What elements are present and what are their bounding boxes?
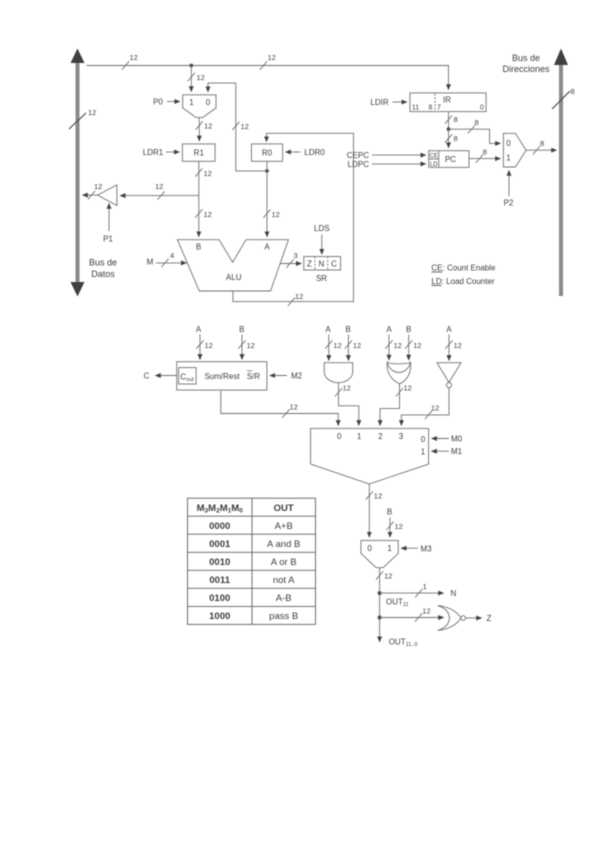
wire M3 to mux select [401, 547, 418, 549]
wire LDR1 to R1 [166, 151, 179, 153]
slash 12 on top wire right [260, 53, 276, 70]
svg-text:LD: LD [430, 162, 438, 168]
bus Bus de Datos [71, 49, 85, 297]
node junction to NOR [378, 616, 382, 620]
wire junction to mux P2 input 0 [449, 129, 501, 143]
svg-text:12: 12 [204, 210, 212, 219]
svg-text:12: 12 [353, 341, 361, 350]
svg-text:M3M2M1M0: M3M2M1M0 [197, 503, 244, 515]
svg-text:SR: SR [316, 274, 327, 283]
wire LDIR to IR [393, 101, 407, 103]
svg-text:CEPC: CEPC [347, 151, 369, 160]
wire ALU output feedback loop to R0 input [233, 133, 354, 301]
slash 8 on wire to mux input 0 [468, 118, 479, 133]
wire B to mux M3 input 1 [389, 518, 391, 538]
svg-text:OUT11..0: OUT11..0 [389, 638, 418, 649]
svg-text:C: C [331, 260, 337, 269]
wire NOT output to mux input 3 [401, 388, 449, 426]
svg-text:11: 11 [412, 104, 419, 111]
svg-text:12: 12 [155, 182, 163, 191]
svg-text:8: 8 [454, 134, 458, 143]
svg-text:12: 12 [395, 522, 403, 531]
slash 8 on IR output [445, 115, 458, 124]
svg-text:0001: 0001 [209, 539, 231, 550]
wire mux output to mux M3 input 0 [368, 484, 370, 537]
svg-text:3: 3 [294, 251, 298, 260]
svg-text:1000: 1000 [209, 611, 230, 622]
svg-text:0: 0 [206, 98, 211, 107]
slash 12 on mux P0 output [196, 121, 213, 130]
svg-text:12: 12 [454, 341, 462, 350]
svg-text:A: A [264, 243, 270, 252]
wire M0 to mux select [432, 438, 449, 440]
svg-text:PC: PC [445, 155, 456, 164]
register SR [304, 257, 341, 271]
wire B to Sum/Rest [241, 335, 243, 360]
slash 12 on ALU B input [195, 209, 212, 219]
wire mux P2 output to address bus [526, 149, 556, 151]
svg-text:IR: IR [443, 96, 451, 105]
register R1 [182, 144, 215, 161]
svg-text:12: 12 [88, 108, 96, 117]
svg-text:1: 1 [189, 98, 194, 107]
svg-text:S/R: S/R [247, 372, 261, 381]
table of ALU operations [188, 498, 316, 624]
svg-text:12: 12 [422, 607, 430, 616]
svg-text:C: C [144, 372, 150, 381]
svg-text:B: B [387, 508, 392, 517]
svg-text:12: 12 [431, 404, 439, 413]
wire A to NOT gate [448, 335, 450, 361]
wire junction to mux P0 input 1 [190, 66, 192, 92]
wire P0 to mux select [167, 101, 180, 103]
svg-text:12: 12 [272, 210, 280, 219]
slash 12 on mux output [366, 491, 382, 500]
svg-text:pass B: pass B [269, 611, 298, 622]
svg-text:1: 1 [506, 154, 511, 163]
wire buffer output to data bus [83, 194, 98, 196]
svg-text:LDR0: LDR0 [304, 148, 325, 157]
svg-text:B: B [345, 325, 350, 334]
wire ALU flags to SR [280, 263, 301, 265]
svg-text:A: A [325, 325, 331, 334]
slash 12 on R1 output [195, 168, 212, 178]
svg-text:Direcciones: Direcciones [502, 64, 550, 74]
register IR [410, 93, 486, 112]
svg-text:12: 12 [374, 492, 382, 501]
svg-text:CE: Count Enable: CE: Count Enable [431, 264, 496, 273]
wire LDS to SR [321, 235, 323, 255]
svg-text:A: A [446, 325, 452, 334]
svg-text:7: 7 [437, 104, 441, 111]
svg-text:12: 12 [204, 169, 212, 178]
wire Sum/Rest output to mux input 0 [221, 390, 338, 425]
svg-text:8: 8 [429, 104, 433, 111]
svg-text:M0: M0 [451, 435, 463, 444]
svg-text:A: A [386, 325, 392, 334]
slash 8 on mux P2 output [533, 139, 544, 154]
svg-text:M1: M1 [451, 447, 463, 456]
wire OR output to mux input 2 [380, 384, 399, 426]
slash 8 on PC output [476, 148, 487, 163]
svg-text:M: M [147, 258, 154, 267]
svg-text:8: 8 [454, 115, 458, 124]
slash 12 on ALU A input [263, 209, 279, 219]
svg-text:1: 1 [387, 544, 392, 553]
svg-text:A+B: A+B [275, 521, 293, 532]
svg-text:12: 12 [205, 341, 213, 350]
adder Sum/Rest [177, 362, 267, 390]
svg-text:12: 12 [130, 53, 138, 62]
svg-text:R0: R0 [262, 149, 273, 158]
wire Cout to C [156, 375, 177, 377]
gate AND [324, 363, 353, 383]
gate OR [387, 362, 411, 384]
svg-text:0: 0 [421, 435, 426, 444]
svg-text:Cout: Cout [180, 373, 194, 384]
svg-text:8: 8 [483, 148, 487, 157]
wire IR output to junction [448, 112, 450, 130]
wire M2 to Sum/Rest [270, 375, 287, 377]
tri-state buffer P1 [98, 185, 117, 206]
wire PC output to mux P2 input 1 [469, 158, 500, 160]
svg-text:R1: R1 [194, 149, 205, 158]
svg-text:1: 1 [421, 448, 426, 457]
svg-text:0: 0 [506, 139, 511, 148]
slash 12 on buffer output [88, 182, 102, 199]
wire AND output to mux input 1 [339, 383, 359, 426]
mux M3 [361, 540, 398, 567]
svg-text:8: 8 [540, 139, 544, 148]
svg-text:OUT: OUT [274, 503, 294, 514]
svg-text:P1: P1 [103, 235, 113, 244]
gate NOR [438, 606, 466, 631]
wire junction to NOR gate [380, 617, 444, 619]
slash 12 on feedback wire [232, 122, 249, 131]
svg-text:0: 0 [367, 544, 372, 553]
svg-text:N: N [319, 260, 325, 269]
wire A to Sum/Rest [199, 335, 201, 360]
svg-text:A and B: A and B [267, 539, 300, 550]
gate NOT [437, 363, 461, 388]
svg-text:Bus de: Bus de [89, 258, 117, 268]
wire R1 output to tri-state buffer [120, 195, 199, 197]
slash 12 on OR output [396, 384, 412, 397]
svg-text:0: 0 [337, 432, 342, 441]
wire OUT result down [379, 568, 381, 642]
svg-text:Datos: Datos [91, 269, 115, 279]
svg-text:M3: M3 [421, 545, 433, 554]
slash 12 on AND output [335, 384, 351, 397]
wire NOR output to Z [466, 617, 482, 619]
slash 12 on B wire [386, 522, 402, 531]
wire B to AND gate [347, 335, 349, 361]
wire A to OR gate [388, 335, 390, 361]
wire P1 to buffer enable [108, 204, 110, 232]
node junction on top wire [189, 64, 193, 68]
wire B to OR gate [408, 335, 410, 361]
slash 12 on NOT output [425, 404, 439, 420]
node junction under IR [447, 127, 451, 131]
svg-text:12: 12 [384, 572, 392, 581]
svg-text:P0: P0 [153, 98, 163, 107]
svg-text:OUT11: OUT11 [386, 598, 409, 609]
note CE Count Enable [431, 264, 496, 273]
wire M to ALU [156, 262, 186, 264]
op ALU [177, 240, 288, 291]
svg-text:12: 12 [413, 341, 421, 350]
svg-text:12: 12 [197, 73, 205, 82]
wire A to AND gate [328, 335, 330, 361]
svg-text:12: 12 [394, 341, 402, 350]
svg-text:A-B: A-B [276, 593, 292, 604]
slash 12 on OUT [376, 571, 392, 580]
svg-text:12: 12 [290, 403, 298, 412]
wire LDR0 to R0 [286, 151, 301, 153]
svg-text:12: 12 [204, 122, 212, 131]
svg-text:0: 0 [480, 104, 484, 111]
mux P0 [183, 95, 216, 118]
wire junction to PC [448, 129, 450, 148]
svg-text:LDR1: LDR1 [143, 148, 164, 157]
slash 8 on wire to PC [445, 134, 458, 143]
note LD Load Counter [431, 277, 494, 286]
svg-text:3: 3 [399, 432, 404, 441]
svg-text:12: 12 [94, 182, 102, 191]
slash 12 on Sum/Rest output [282, 403, 297, 418]
svg-text:A or B: A or B [271, 557, 297, 568]
svg-text:4: 4 [170, 251, 174, 260]
svg-text:Sum/Rest: Sum/Rest [204, 372, 240, 381]
slash 12 on wire to P0 mux [188, 73, 205, 82]
wire OUT11 to N [380, 592, 444, 594]
node junction under R0 [265, 169, 269, 173]
svg-text:B: B [406, 325, 411, 334]
svg-text:8: 8 [475, 118, 479, 127]
slash 12 on NOR input [415, 607, 431, 622]
svg-text:12: 12 [268, 53, 276, 62]
slash 12 on top wire left [122, 53, 138, 70]
register R0 [251, 144, 282, 161]
svg-text:2: 2 [378, 432, 383, 441]
counter PC [429, 151, 469, 168]
svg-text:12: 12 [404, 384, 412, 393]
svg-text:Z: Z [307, 260, 312, 269]
slash 4 on M wire [161, 251, 174, 267]
svg-text:P2: P2 [504, 199, 514, 208]
svg-text:B: B [196, 243, 201, 252]
mux P2 [503, 133, 526, 167]
wire P2 to mux select [508, 171, 510, 197]
bus Bus de Direcciones [554, 49, 568, 297]
wire LDPC to PC [372, 163, 426, 165]
svg-text:12: 12 [295, 292, 303, 301]
svg-text:1: 1 [423, 582, 427, 591]
svg-text:LDIR: LDIR [370, 98, 388, 107]
mux 4-to-1 M0 M1 [311, 428, 429, 484]
slash 3 on flags wire [286, 251, 297, 268]
svg-text:B: B [239, 325, 244, 334]
svg-text:not A: not A [273, 575, 295, 586]
wire R1 output to ALU input B [198, 161, 200, 236]
svg-text:CE: CE [430, 154, 438, 160]
svg-text:LDS: LDS [314, 224, 330, 233]
wire data bus to IR top [87, 66, 449, 90]
svg-text:1: 1 [357, 432, 362, 441]
svg-text:LDPC: LDPC [348, 160, 370, 169]
svg-text:ALU: ALU [226, 273, 242, 282]
svg-text:0011: 0011 [209, 575, 230, 586]
svg-text:12: 12 [333, 341, 341, 350]
bus width slash 12 on Bus de Datos [69, 108, 96, 129]
svg-text:0010: 0010 [209, 557, 230, 568]
svg-text:M2: M2 [291, 372, 303, 381]
bus width slash 8 on Bus de Direcciones [552, 87, 575, 109]
node junction OUT11 [378, 591, 382, 595]
svg-text:LD: Load Counter: LD: Load Counter [431, 277, 494, 286]
svg-text:12: 12 [343, 384, 351, 393]
wire mux P0 output to register R1 [198, 117, 200, 140]
slash 1 on N wire [415, 582, 427, 597]
svg-text:A: A [196, 325, 202, 334]
svg-text:12: 12 [241, 122, 249, 131]
wire R0 output to ALU input A [266, 161, 268, 237]
svg-text:Z: Z [487, 614, 492, 623]
svg-text:0000: 0000 [209, 521, 230, 532]
wire feedback to mux P0 input 0 [208, 83, 267, 171]
svg-text:12: 12 [247, 341, 255, 350]
slash 12 on ALU output [288, 292, 303, 306]
svg-text:Bus de: Bus de [512, 53, 540, 63]
svg-text:0100: 0100 [209, 593, 230, 604]
svg-text:N: N [451, 589, 457, 598]
wire M1 to mux select [432, 450, 449, 452]
wire CEPC to PC [372, 154, 426, 156]
svg-text:8: 8 [571, 87, 575, 96]
slash 12 on wire to buffer [155, 182, 165, 200]
